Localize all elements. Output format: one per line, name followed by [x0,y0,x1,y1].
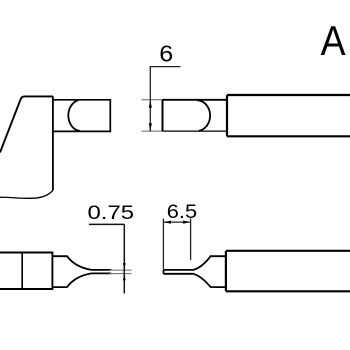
dimension 6.5 [163,219,190,270]
svg-text:6: 6 [159,41,173,67]
extension lines for dim 6 [142,100,163,131]
dimension 0.75 leader [89,224,124,293]
svg-text:6.5: 6.5 [167,201,197,223]
dimension line 6 with leader [150,67,181,132]
cone section lines (bottom-left figure) [52,256,111,287]
svg-text:0.75: 0.75 [88,201,135,223]
needle (bottom-left figure) [91,269,111,271]
svg-text:A: A [321,18,347,64]
bevel face arc (top-middle figure) [197,100,210,131]
body rectangle (bottom-left figure) [0,253,52,290]
arrowheads dim 6 [149,100,152,131]
chisel tip side view (top-middle figure) [163,100,228,131]
divider line (bottom-left body) [21,253,23,290]
arrowheads dim 0.75 [123,263,126,280]
needle with end cap (bottom-middle figure) [164,256,226,287]
blade profile outline (top-left figure) [0,96,53,198]
arrowheads dim 6.5 [164,221,190,224]
needle edge extension ticks (bottom-left) [109,270,132,274]
tip cylinder rectangle (top-left figure) [53,100,110,132]
shaft cylinder (top row) [227,95,350,136]
bevel face arc (top-left figure) [68,100,80,131]
shaft cylinder (bottom row) [226,251,350,291]
